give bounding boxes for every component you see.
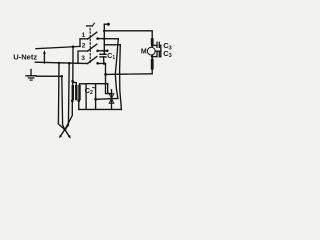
triac V1	[109, 90, 114, 110]
choke winding bar 1	[72, 85, 74, 100]
wire to motor top	[104, 31, 152, 38]
wire bar2 top link	[73, 82, 77, 86]
wire bottom rail	[79, 108, 122, 110]
switch actuator T	[87, 23, 95, 26]
wire PE drop to star	[62, 76, 65, 129]
wire L1 corner up to switch 1	[80, 39, 88, 47]
capacitor C2 element vertical	[95, 84, 97, 110]
capacitor C3 upper	[152, 42, 161, 47]
node dot motor top	[151, 44, 154, 47]
wire S3 corner down	[106, 64, 112, 94]
wire L1 top mains	[36, 46, 80, 48]
node junction L2 drop a	[58, 62, 61, 65]
switch gang dashed link	[89, 28, 91, 63]
capacitor C1	[100, 54, 106, 63]
node junction L1 drop	[72, 45, 75, 48]
svg-text:M: M	[141, 48, 147, 55]
svg-text:U-Netz: U-Netz	[13, 52, 37, 61]
wire L2 drop b to star	[65, 63, 69, 130]
wire S3 out	[98, 62, 106, 64]
motor M circle	[147, 47, 155, 55]
choke winding bar 2	[75, 85, 77, 100]
box C2 case top	[86, 83, 108, 85]
wire motor frame tap	[155, 50, 160, 52]
wire bridge H3	[104, 44, 120, 46]
node dot on L1 drop	[71, 80, 74, 83]
node junction L2 drop b	[68, 62, 71, 65]
node dot C1 top	[103, 50, 106, 53]
wire motor bottom corner	[151, 70, 153, 74]
node PE dot	[61, 75, 64, 78]
svg-text:2: 2	[82, 43, 86, 50]
svg-text:1: 1	[82, 32, 86, 39]
winding motor field bottom	[151, 59, 154, 70]
box C2 case left	[85, 84, 87, 110]
node dot S2 end	[106, 50, 109, 53]
box C2 case right	[107, 84, 109, 94]
wire PE	[37, 75, 62, 77]
wire C3 common right	[160, 45, 162, 56]
wire bar3 top to box	[80, 84, 87, 87]
node terminal dot top stub	[107, 23, 110, 26]
ground earth symbol	[26, 70, 36, 81]
winding motor field top	[151, 38, 154, 44]
node junction motor line	[103, 30, 106, 33]
wire v1 right	[115, 39, 118, 99]
node dot C1 bottom	[103, 62, 106, 65]
wire v2 right	[120, 45, 122, 110]
wire L1 drop to choke	[72, 47, 74, 87]
svg-text:C2: C2	[85, 86, 93, 96]
node dot motor bottom	[151, 55, 154, 58]
wire center column	[103, 24, 105, 54]
node junction S1/C column	[103, 38, 106, 41]
wire motor return	[106, 73, 153, 76]
wire S2 out	[98, 50, 108, 52]
node U arrow	[43, 50, 46, 63]
svg-text:3: 3	[81, 55, 85, 62]
node junction C2 gate wire	[94, 98, 97, 101]
label C2 arrow	[93, 86, 96, 89]
switch S2	[88, 44, 99, 52]
wire L2 drop a to star	[58, 63, 65, 130]
node star point chassis	[59, 128, 71, 139]
svg-text:C1: C1	[107, 53, 115, 61]
wire S1 out	[98, 38, 119, 40]
switch S3	[88, 57, 99, 65]
wire bar1 bottom to star	[65, 101, 72, 130]
wire top stub	[104, 23, 108, 25]
switch S1	[88, 32, 99, 40]
wire bar3 bottom to rail	[78, 101, 80, 110]
wire L2 corner up to switch 2	[78, 51, 88, 63]
node dot bar3 bottom	[77, 100, 80, 103]
capacitor C3 lower	[152, 52, 161, 57]
wire gate horizontal	[96, 98, 118, 101]
wire L2 lower mains	[35, 62, 87, 63]
choke winding bar 3	[78, 85, 80, 100]
node junction motor return	[104, 73, 107, 76]
wire motor vertical through	[151, 45, 153, 47]
node dot bar1 bottom	[71, 100, 74, 103]
